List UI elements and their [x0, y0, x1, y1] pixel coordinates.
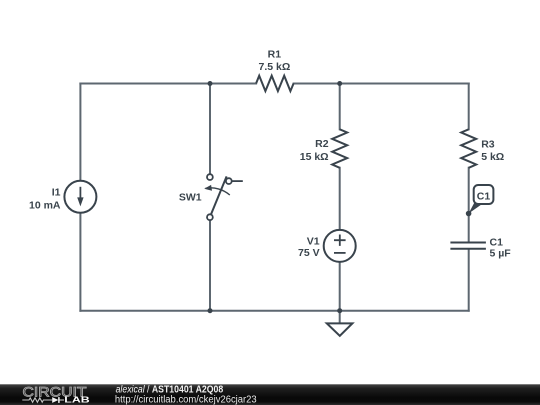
svg-text:C1: C1 — [477, 190, 491, 202]
wire top rail left segment — [80, 83, 256, 85]
current source I1 — [64, 181, 96, 213]
wire left vertical lower — [79, 213, 81, 311]
footer bar — [0, 384, 540, 405]
wire R2 to V1 — [339, 168, 341, 230]
probe C1 — [466, 185, 494, 216]
logo diode symbol — [52, 397, 64, 403]
wire bottom rail — [80, 310, 468, 312]
svg-text:75 V: 75 V — [298, 247, 320, 259]
node junction bottom ground — [337, 308, 342, 313]
svg-text:V1: V1 — [307, 235, 320, 247]
svg-text:SW1: SW1 — [179, 191, 202, 203]
ground — [327, 323, 353, 335]
wire ground stub — [339, 311, 341, 324]
voltage source V1 — [324, 230, 356, 262]
wire right vertical top — [468, 84, 470, 130]
wire C1 to bottom rail — [468, 250, 470, 311]
svg-text:LAB: LAB — [64, 395, 90, 404]
svg-text:I1: I1 — [52, 186, 61, 198]
wire V1 to bottom rail — [339, 262, 341, 311]
svg-text:R1: R1 — [268, 48, 282, 60]
wire SW1 bottom branch — [209, 220, 211, 310]
switch SW1 — [204, 174, 243, 220]
node junction top SW1 — [208, 81, 213, 86]
logo resistor symbol — [22, 398, 52, 402]
svg-text:15 kΩ: 15 kΩ — [300, 151, 329, 163]
svg-text:5 kΩ: 5 kΩ — [481, 151, 504, 163]
svg-text:http://circuitlab.com/ckejv26c: http://circuitlab.com/ckejv26cjar23 — [115, 395, 257, 405]
svg-text:5 µF: 5 µF — [490, 248, 512, 260]
capacitor C1 — [450, 243, 486, 249]
svg-text:R3: R3 — [481, 139, 495, 151]
resistor R1 — [256, 76, 294, 91]
svg-text:10 mA: 10 mA — [29, 199, 61, 211]
wire R3 to C1 — [468, 168, 470, 242]
wire top rail right segment — [294, 83, 469, 85]
wire R2 top branch — [339, 84, 341, 130]
svg-text:7.5 kΩ: 7.5 kΩ — [259, 61, 291, 73]
svg-text:R2: R2 — [315, 138, 329, 150]
wire SW1 top branch — [209, 84, 211, 175]
node junction top R2 — [337, 81, 342, 86]
resistor R3 — [461, 129, 476, 168]
wire left vertical upper — [79, 84, 81, 181]
node junction bottom SW1 — [208, 308, 213, 313]
resistor R2 — [332, 129, 347, 168]
